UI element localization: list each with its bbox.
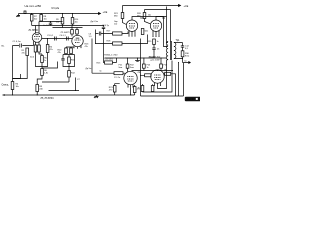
wire [36, 92, 38, 96]
screen rail 2 [145, 9, 171, 11]
svg-text:10к: 10к [16, 86, 19, 88]
svg-text:R15: R15 [97, 63, 102, 65]
resistor R12 [68, 71, 71, 78]
wire OT primary top [167, 7, 169, 43]
wire [68, 67, 70, 71]
wire loop mid [143, 61, 173, 93]
wire V6 plate [157, 69, 159, 72]
junction a [31, 13, 32, 14]
wire [134, 85, 136, 95]
svg-text:25: 25 [157, 49, 160, 51]
svg-text:R17: R17 [107, 31, 112, 33]
svg-text:1к: 1к [147, 67, 149, 69]
resistor R14 [71, 18, 74, 25]
resistor R18 [113, 42, 123, 45]
wire [62, 24, 64, 28]
svg-text:ТВЗШ-1 х700: ТВЗШ-1 х700 [104, 55, 118, 57]
wire loop inner [158, 59, 169, 89]
screen rail 1 [123, 5, 181, 7]
svg-text:10к: 10к [75, 22, 78, 24]
wire [31, 14, 33, 15]
wire B+ bus 2 [53, 27, 83, 29]
wire [160, 58, 162, 70]
capacitor C5 bars [61, 59, 64, 60]
wire [92, 72, 125, 74]
tube V6 [151, 70, 164, 83]
svg-text:62к: 62к [34, 19, 37, 21]
wire cathode loop V1 [36, 52, 48, 67]
svg-text:С10 10,0: С10 10,0 [105, 59, 114, 61]
wire cathode loop V2 [63, 54, 75, 67]
wire V5 cathode [130, 88, 132, 95]
capacitor C9 [102, 26, 105, 29]
resistor R4 [46, 45, 49, 53]
wire secondary bottom [174, 57, 183, 63]
svg-text:10к: 10к [56, 22, 59, 24]
wire plate V4 [156, 17, 167, 21]
wire [47, 39, 49, 45]
resistor R31 [151, 86, 154, 92]
wire [72, 24, 74, 26]
label box [185, 97, 201, 101]
wire [122, 6, 124, 13]
resistor R1 [26, 48, 29, 56]
wire [143, 58, 145, 71]
wire splitter output [92, 30, 96, 74]
resistor R2 [34, 45, 37, 52]
svg-text:Гр: Гр [185, 60, 188, 62]
resistor R12k [65, 48, 68, 54]
tube V5 pins [128, 84, 133, 87]
resistor R8 [40, 15, 43, 22]
coupling wire [42, 38, 72, 40]
wire NFB tap [42, 62, 58, 69]
resistor R26 [143, 13, 146, 19]
wire B+ bus 1 [32, 25, 104, 27]
resistor R3 [38, 45, 41, 52]
wire [40, 14, 42, 15]
transformer Tr1 primary [166, 42, 168, 60]
wire [62, 14, 64, 18]
resistor R7 [30, 15, 33, 22]
tube V5 [124, 71, 137, 84]
wire V5 plate to OT [132, 70, 173, 72]
resistor R27a screen V6 [160, 64, 163, 68]
capacitor C2 [49, 22, 52, 26]
wire [49, 90, 73, 92]
tube V3 [126, 20, 137, 31]
svg-text:R29: R29 [148, 41, 153, 43]
resistor R11 plate [76, 30, 79, 35]
junction b [41, 13, 42, 14]
wire [13, 56, 28, 79]
wire OT center tap [170, 10, 172, 42]
wire [144, 10, 146, 13]
tube V3 pins [129, 31, 135, 36]
svg-text:Смещ.: Смещ. [2, 84, 10, 87]
capacitor C11 [152, 45, 155, 52]
wire [31, 21, 33, 26]
wire [68, 77, 70, 82]
wire [104, 28, 117, 62]
ground chassis mid [94, 95, 99, 98]
svg-text:Са 10: Са 10 [43, 25, 49, 27]
resistor R29 [153, 39, 156, 45]
wire to V4 grid [96, 35, 148, 44]
tube V1 pins [36, 42, 40, 45]
svg-text:1к: 1к [157, 41, 159, 43]
node +UB arrow [99, 13, 101, 15]
wire [72, 14, 74, 18]
svg-text:R12: R12 [71, 73, 76, 75]
svg-text:47к: 47к [85, 46, 88, 48]
resistor R13k [70, 48, 73, 54]
svg-text:Л2 6Н2П: Л2 6Н2П [61, 32, 70, 34]
wire [145, 19, 151, 24]
svg-text:9ом: 9ом [130, 67, 134, 69]
svg-text:Р27: Р27 [164, 65, 169, 67]
resistor R5 [41, 56, 44, 63]
junction f [69, 66, 70, 67]
svg-text:+Uв: +Uв [184, 4, 189, 8]
svg-text:500: 500 [145, 31, 149, 33]
tube V4 pins [153, 31, 159, 37]
svg-text:1к: 1к [44, 60, 46, 62]
capacitor C7 to ground [72, 78, 79, 91]
resistor R23 [113, 86, 116, 93]
resistor R8b [36, 85, 39, 92]
svg-text:10к: 10к [114, 24, 117, 26]
wire top rail [19, 13, 101, 15]
svg-text:Вх.: Вх. [2, 46, 6, 48]
resistor R21a screen V5 [126, 64, 129, 68]
svg-text:С7: С7 [77, 79, 81, 81]
svg-text:+Uв: +Uв [103, 10, 108, 14]
svg-text:Uа пит.+250: Uа пит.+250 [25, 4, 42, 8]
wire [141, 74, 152, 76]
resistor R28 [141, 86, 144, 92]
junction d [72, 13, 73, 14]
svg-text:1,0: 1,0 [89, 36, 93, 38]
resistor R19 [114, 72, 123, 75]
resistor R10 plate [71, 30, 74, 35]
transformer core [170, 41, 171, 60]
svg-text:рис. 1: рис. 1 [187, 98, 194, 101]
svg-text:47к: 47к [49, 49, 52, 51]
tube V4 [150, 20, 161, 31]
svg-text:Л1 6Н9С: Л1 6Н9С [29, 29, 39, 32]
wire secondary top [174, 43, 183, 46]
svg-text:50,0: 50,0 [30, 57, 35, 59]
svg-text:Др 5w: Др 5w [86, 68, 92, 70]
junction s [182, 58, 183, 59]
resistor R15 [105, 61, 113, 64]
svg-text:R18: R18 [107, 41, 112, 43]
capacitor C12 [181, 46, 184, 51]
junction r4 [47, 38, 48, 39]
resistor R30 load [181, 51, 184, 57]
svg-text:470: 470 [109, 90, 113, 92]
svg-text:R16: R16 [71, 60, 76, 62]
wire plate node b [39, 21, 63, 23]
svg-text:С3 0,1: С3 0,1 [47, 35, 54, 37]
junction c [62, 13, 63, 14]
resistor R22 [141, 29, 144, 35]
svg-text:Р-1 5к: Р-1 5к [114, 77, 120, 79]
transformer Tr1 secondary [174, 43, 176, 59]
resistor R16 [68, 57, 71, 64]
resistor R9 [61, 18, 64, 25]
fuse Pr1 [24, 11, 26, 14]
svg-text:240: 240 [39, 89, 43, 91]
wire screen bus [105, 57, 167, 59]
junction p [157, 70, 158, 71]
svg-text:Rс: Rс [138, 88, 141, 90]
svg-text:С4 0,1: С4 0,1 [60, 35, 67, 37]
capacitor C3 [55, 37, 57, 41]
svg-text:5к: 5к [100, 71, 102, 73]
svg-text:Rб 458: Rб 458 [149, 57, 157, 59]
junction q [172, 70, 173, 71]
svg-text:47к: 47к [58, 52, 61, 54]
speaker arrow [183, 62, 191, 64]
resistor R26a screen [143, 64, 146, 68]
wire [115, 84, 120, 95]
capacitor C4 [67, 37, 69, 41]
svg-text:10к: 10к [44, 19, 47, 21]
wire [152, 84, 154, 92]
wire [66, 47, 74, 48]
ground bus bottom [3, 94, 135, 96]
svg-text:Л5, Л6 6П3С: Л5, Л6 6П3С [41, 98, 55, 100]
wire [37, 76, 42, 85]
wire loop outer NFB [141, 63, 184, 97]
resistor R24 [133, 87, 136, 93]
svg-text:М 4,2м: М 4,2м [52, 7, 60, 10]
ground mid [135, 58, 140, 62]
svg-text:для 4,5W: для 4,5W [151, 60, 160, 62]
wire cathode bus [42, 81, 69, 83]
svg-text:Др 0,5w: Др 0,5w [91, 21, 99, 23]
resistor R21 [121, 13, 124, 19]
svg-text:С1 0,1м: С1 0,1м [13, 41, 21, 43]
wire [164, 74, 175, 96]
wire V3 plate to OT [164, 17, 169, 47]
svg-text:9ом: 9ом [119, 67, 123, 69]
resistor R25 [165, 72, 171, 75]
svg-text:Тр1: Тр1 [176, 39, 181, 42]
tube V2 pins [74, 46, 81, 49]
resistor R20 [145, 74, 151, 77]
wire input down [12, 46, 14, 82]
svg-text:0,5: 0,5 [185, 48, 189, 50]
wire to V3 grid [101, 32, 128, 34]
wire [41, 67, 43, 69]
junction g [95, 43, 96, 44]
wire [142, 84, 144, 92]
tube V6 pins [155, 83, 161, 87]
wire [40, 20, 42, 23]
node +UB2 arrow [179, 5, 181, 7]
wire [123, 19, 127, 25]
svg-text:680: 680 [114, 15, 118, 17]
wire [153, 52, 155, 59]
svg-text:1,8к: 1,8к [44, 73, 48, 75]
svg-text:8Ом: 8Ом [185, 56, 190, 58]
resistor R17 [113, 32, 123, 35]
ground chassis left [16, 14, 20, 17]
wire [127, 58, 129, 72]
resistor R6 [41, 69, 44, 76]
svg-text:47к: 47к [22, 53, 25, 55]
wire V2 plates [72, 26, 77, 37]
long wire mid verticals [140, 39, 142, 97]
junction e [12, 95, 13, 96]
tube V3 plate [132, 17, 164, 21]
